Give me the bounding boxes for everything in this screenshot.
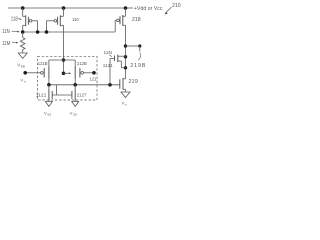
node mirror left junction bbox=[47, 83, 51, 87]
label 11N with leader bbox=[104, 50, 113, 56]
svg-text:219: 219 bbox=[129, 79, 139, 85]
wire sources tie bbox=[49, 59, 75, 61]
label 118 with leader arrow bbox=[11, 16, 22, 22]
wire gate bias line bbox=[23, 31, 116, 33]
label figure number 210 with arrow bbox=[165, 3, 181, 14]
node bias line junction T2 gate bbox=[45, 30, 49, 34]
svg-text:11N: 11N bbox=[2, 29, 10, 35]
label 11N with leader arrow bbox=[2, 29, 20, 35]
wire mirror line bbox=[49, 84, 120, 86]
ground Vss under right mirror bbox=[70, 102, 79, 117]
transistor 212B (right input PMOS) bbox=[75, 60, 94, 85]
svg-text:210: 210 bbox=[172, 3, 181, 9]
svg-text:1121: 1121 bbox=[103, 63, 113, 68]
svg-text:11N: 11N bbox=[104, 50, 113, 56]
node bias line junction at T1 drain bbox=[21, 30, 25, 34]
ground Vss under resistor bbox=[17, 53, 27, 69]
node input terminal Vi+ bbox=[23, 71, 27, 75]
resistor 11M bbox=[20, 32, 25, 53]
node input terminal 121 bbox=[92, 71, 96, 75]
svg-text:o: o bbox=[125, 103, 127, 107]
wire center stub with arrowhead bbox=[64, 72, 72, 74]
ground Vo under output bbox=[121, 92, 130, 107]
svg-text:121: 121 bbox=[90, 77, 98, 82]
svg-text:i+: i+ bbox=[24, 80, 27, 84]
node drain junction cap bbox=[124, 44, 127, 47]
svg-text:121B: 121B bbox=[38, 61, 48, 66]
svg-text:SS: SS bbox=[47, 113, 51, 117]
node center lower junction bbox=[62, 72, 66, 76]
node bias line junction T1 gate bbox=[36, 30, 40, 34]
transistor 110 (PMOS T2) bbox=[47, 8, 64, 32]
svg-text:2127: 2127 bbox=[77, 92, 87, 97]
node rail junction right bbox=[124, 6, 128, 10]
transistor 121B (left input PMOS) bbox=[25, 60, 49, 85]
wire mirror gate tie bbox=[52, 85, 72, 95]
node tail junction bbox=[62, 58, 66, 62]
node drain junction lower bbox=[124, 66, 127, 69]
node rail junction middle bbox=[62, 6, 66, 10]
node drain junction upper bbox=[124, 55, 127, 58]
transistor 2127 (right mirror NMOS) bbox=[72, 85, 75, 102]
wire T3 drain column bbox=[125, 25, 127, 79]
node second stage gate junction bbox=[108, 83, 112, 87]
transistor 11N (second stage NMOS) bbox=[110, 55, 126, 85]
svg-text:11M: 11M bbox=[2, 41, 10, 47]
transistor 219 (output NMOS) bbox=[120, 78, 126, 92]
wire Vdd rail bbox=[8, 7, 133, 9]
svg-text:110: 110 bbox=[72, 17, 79, 23]
svg-text:1121: 1121 bbox=[36, 92, 47, 98]
dashed box first stage bbox=[38, 56, 98, 100]
node mirror right junction bbox=[73, 83, 77, 87]
label 11M with leader arrow bbox=[2, 41, 18, 47]
svg-text:SS: SS bbox=[21, 65, 25, 69]
node rail junction left bbox=[21, 6, 25, 10]
svg-text:SS: SS bbox=[73, 113, 77, 117]
svg-text:+Vdd or Vcc: +Vdd or Vcc bbox=[134, 6, 163, 12]
ground Vss under left mirror bbox=[44, 102, 52, 117]
transistor 118 (PMOS T1) bbox=[23, 8, 38, 32]
svg-text:212B: 212B bbox=[77, 61, 87, 66]
capacitor stub 219B bbox=[126, 44, 142, 60]
transistor 1121 (left mirror NMOS) bbox=[49, 85, 52, 102]
svg-text:218: 218 bbox=[132, 17, 141, 23]
transistor 218 (PMOS T3) bbox=[117, 8, 126, 26]
svg-text:219B: 219B bbox=[130, 63, 146, 69]
svg-text:118: 118 bbox=[11, 16, 18, 22]
wire tail from T2 drain bbox=[63, 25, 65, 73]
